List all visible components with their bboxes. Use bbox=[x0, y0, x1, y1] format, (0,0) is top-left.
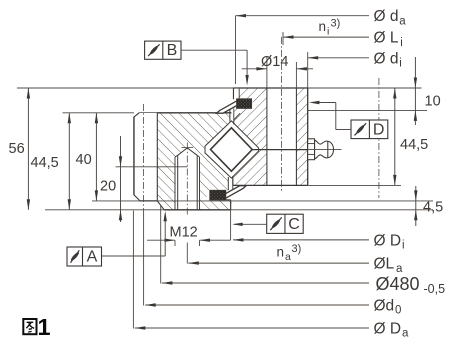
svg-text:56: 56 bbox=[9, 141, 25, 157]
inner ring hatched body bbox=[234, 88, 308, 185]
svg-text:44,5: 44,5 bbox=[400, 137, 428, 153]
svg-text:10: 10 bbox=[425, 94, 441, 110]
flag B bbox=[145, 41, 181, 59]
svg-text:-0,5: -0,5 bbox=[424, 282, 446, 296]
svg-text:Ø d: Ø d bbox=[374, 50, 399, 67]
svg-text:Ø d: Ø d bbox=[374, 8, 399, 25]
grease nipple bbox=[308, 139, 334, 160]
label O D_a bbox=[135, 327, 369, 329]
dim 10 bbox=[414, 57, 416, 125]
raceway faces bbox=[205, 121, 259, 178]
label O 480-0,5 bbox=[162, 282, 369, 284]
label O d_0 bbox=[145, 304, 369, 306]
dim 4,5 bbox=[415, 186, 417, 226]
outer ring hatched body bbox=[157, 113, 231, 210]
svg-text:a: a bbox=[396, 263, 403, 275]
svg-text:n: n bbox=[319, 19, 327, 34]
band (unhatched section of outer ring) bbox=[134, 113, 157, 201]
svg-text:a: a bbox=[402, 328, 409, 340]
svg-text:Ø480: Ø480 bbox=[376, 274, 420, 294]
inner ring top-left sliver bbox=[234, 89, 239, 99]
grease passage / split line bbox=[251, 149, 308, 151]
svg-text:40: 40 bbox=[76, 152, 92, 168]
svg-text:3): 3) bbox=[292, 243, 302, 255]
label O d_a bbox=[236, 15, 370, 17]
svg-text:i: i bbox=[327, 25, 329, 37]
dim M12 bbox=[147, 239, 175, 241]
bottom seal bbox=[224, 186, 246, 199]
M12 centreline bbox=[186, 143, 188, 216]
svg-text:B: B bbox=[167, 42, 178, 59]
label O D_i bbox=[233, 239, 369, 241]
svg-text:i: i bbox=[399, 58, 402, 70]
outer ring outline bbox=[139, 112, 231, 114]
svg-text:D: D bbox=[373, 121, 385, 138]
dash-dot aux line right bbox=[378, 78, 380, 198]
M12 hole outline bbox=[174, 157, 176, 210]
svg-text:C: C bbox=[288, 216, 300, 233]
Ø14 hole walls bbox=[266, 88, 268, 185]
svg-text:44,5: 44,5 bbox=[31, 155, 59, 171]
figure label 图1 bbox=[23, 319, 36, 334]
svg-text:Ø14: Ø14 bbox=[261, 54, 288, 70]
dim O14 bbox=[242, 68, 267, 70]
svg-text:Ø D: Ø D bbox=[374, 232, 402, 249]
svg-text:1: 1 bbox=[38, 314, 51, 340]
svg-text:M12: M12 bbox=[170, 225, 198, 241]
dim 20 bbox=[120, 136, 122, 222]
label O d_i bbox=[308, 57, 369, 59]
svg-text:i: i bbox=[402, 240, 405, 252]
svg-text:Ø L: Ø L bbox=[374, 30, 399, 47]
label O L_a + n_a bbox=[188, 262, 369, 264]
dim 40 bbox=[95, 113, 97, 201]
M12 tapped hole void bbox=[175, 148, 200, 210]
svg-text:ØL: ØL bbox=[374, 256, 395, 273]
raceway cavity bbox=[205, 121, 259, 178]
extension lines bbox=[17, 87, 234, 89]
flag A bbox=[67, 247, 102, 266]
dim 44,5 right bbox=[394, 88, 396, 185]
svg-text:20: 20 bbox=[100, 179, 116, 195]
svg-text:0: 0 bbox=[395, 305, 401, 317]
svg-text:Ø D: Ø D bbox=[374, 321, 402, 338]
svg-text:Ød: Ød bbox=[374, 298, 395, 315]
crossed roller bbox=[211, 128, 253, 171]
svg-text:3): 3) bbox=[331, 18, 341, 30]
label O L_i + n_i bbox=[283, 36, 369, 38]
svg-text:a: a bbox=[285, 251, 291, 263]
dim 44,5 left bbox=[68, 113, 70, 210]
dim 56 bbox=[27, 88, 29, 210]
inner ring outline bbox=[234, 87, 308, 89]
Ø14 centreline bbox=[281, 37, 283, 192]
top seal bbox=[217, 100, 239, 113]
svg-text:a: a bbox=[399, 15, 406, 27]
svg-text:n: n bbox=[277, 245, 285, 260]
svg-text:4,5: 4,5 bbox=[423, 199, 443, 215]
flag C bbox=[267, 214, 304, 233]
svg-text:A: A bbox=[87, 249, 98, 266]
O14 hole void bbox=[267, 88, 297, 185]
flag D bbox=[351, 120, 388, 139]
svg-text:i: i bbox=[400, 37, 403, 49]
band centreline bbox=[143, 104, 145, 211]
